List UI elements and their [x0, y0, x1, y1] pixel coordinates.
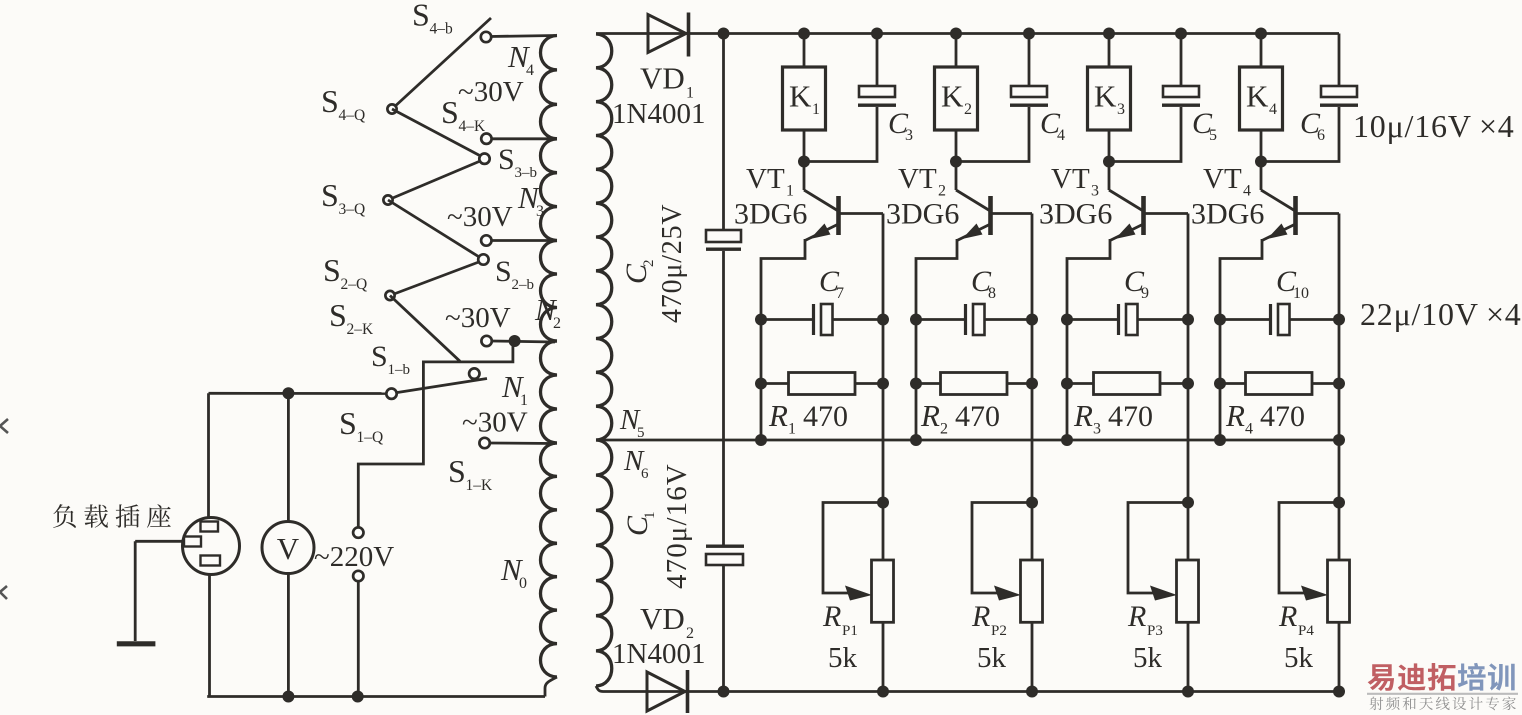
label C8: [971, 265, 996, 302]
label S4-K: [441, 94, 486, 135]
wire RP4 bottom: [1338, 622, 1341, 691]
label 5k (RP3): [1133, 642, 1163, 674]
junction top rail C5: [1175, 28, 1187, 40]
svg-text:P3: P3: [1147, 623, 1163, 639]
svg-text:VD: VD: [640, 601, 685, 636]
label S1-K: [448, 453, 493, 494]
pivot contact S4-Q: [387, 104, 396, 113]
svg-text:2: 2: [964, 101, 972, 118]
capacitor C2 470u/25V: [706, 230, 741, 251]
transformer secondary winding N6: [596, 440, 612, 686]
contact S3-b: [479, 154, 489, 164]
svg-text:0: 0: [519, 575, 527, 592]
svg-text:S: S: [329, 297, 347, 333]
svg-text:10: 10: [1293, 285, 1309, 302]
wire K2 top: [955, 34, 958, 68]
label ~30V (N2): [445, 302, 511, 334]
wire C4 top: [1028, 34, 1031, 87]
svg-text:VT: VT: [898, 163, 937, 195]
svg-text:VD: VD: [640, 61, 685, 96]
junction C10 left: [1214, 314, 1226, 326]
label 3DG6 (VT2): [886, 198, 959, 231]
svg-text:~30V: ~30V: [445, 302, 511, 334]
svg-text:S: S: [441, 94, 459, 130]
junction voltmeter top: [282, 387, 294, 399]
junction R3 right: [1182, 378, 1194, 390]
label N6: [623, 445, 649, 482]
svg-text:R: R: [971, 600, 990, 633]
label S4-Q: [321, 83, 365, 124]
svg-text:2–Q: 2–Q: [341, 276, 368, 293]
watermark underline: [1367, 693, 1518, 695]
svg-text:3–Q: 3–Q: [339, 201, 366, 218]
wire tap N2/N1 with junction: [492, 341, 555, 342]
wire socket to ground: [135, 541, 183, 641]
label 3DG6 (VT4): [1191, 198, 1264, 231]
label N1: [501, 369, 528, 409]
junction R2 right: [1026, 378, 1038, 390]
wire C2 bottom through mid rail to C1: [722, 251, 725, 545]
svg-text:470μ/25V: 470μ/25V: [657, 204, 688, 323]
label 10u/16V x4: [1353, 108, 1515, 144]
label R2 470: [920, 398, 1000, 438]
label N4: [507, 39, 534, 79]
svg-text:1–b: 1–b: [388, 362, 411, 378]
svg-text:P1: P1: [842, 623, 858, 639]
label RP4: [1278, 600, 1314, 639]
svg-text:2: 2: [641, 260, 657, 268]
wire primary bottom end to left bottom rail: [545, 677, 557, 697]
potentiometer RP3 5k: [1128, 503, 1199, 623]
junction mid rail right end: [1333, 434, 1345, 446]
svg-text:470: 470: [803, 400, 848, 433]
svg-text:S: S: [498, 143, 515, 176]
switch arm S3-Q lower: [388, 200, 479, 257]
label 1N4001 (VD2): [612, 638, 705, 670]
label 负载插座: [53, 504, 171, 528]
junction emitter rail mid rail: [1061, 434, 1073, 446]
svg-text:2–K: 2–K: [347, 321, 375, 338]
mains terminal lower: [353, 571, 363, 581]
junction top rail C3: [871, 28, 883, 40]
wire C1 bottom: [722, 565, 725, 692]
switch arm S1-Q: [397, 379, 488, 393]
relay K2: [935, 67, 978, 130]
pivot contact S1-Q: [386, 389, 396, 399]
label S4-b: [412, 0, 453, 38]
label R3 470: [1073, 398, 1153, 438]
wire C6 bottom to collector node: [1261, 107, 1339, 162]
svg-text:1: 1: [812, 101, 820, 118]
svg-text:R: R: [1225, 398, 1245, 433]
wire secondary bottom end to right bottom rail: [596, 686, 603, 692]
svg-text:5k: 5k: [828, 642, 858, 674]
svg-text:22μ/10V ×4: 22μ/10V ×4: [1360, 296, 1522, 332]
wire RP1 bottom: [882, 622, 885, 691]
contact S1-b: [469, 368, 479, 378]
svg-text:4: 4: [526, 62, 534, 79]
svg-text:470: 470: [1260, 400, 1305, 433]
junction R4 left: [1214, 378, 1226, 390]
transformer secondary winding N5: [596, 34, 612, 440]
svg-text:S: S: [323, 252, 341, 288]
svg-text:~30V: ~30V: [447, 201, 513, 233]
scan artifact left edge 2: [0, 586, 7, 599]
junction wiper RP2: [1026, 497, 1038, 509]
label N0: [500, 552, 527, 592]
watermark 易迪拓: [1368, 663, 1456, 691]
label C2: [620, 260, 657, 285]
watermark 培训: [1458, 663, 1515, 691]
svg-text:2–b: 2–b: [512, 277, 535, 293]
wire K3 bottom to collector: [1108, 130, 1111, 162]
label N2: [534, 292, 561, 332]
label 5k (RP4): [1284, 642, 1314, 674]
contact S4-b: [481, 32, 491, 42]
label VT3: [1051, 163, 1099, 200]
diode VD1: [648, 13, 689, 57]
svg-text:3: 3: [536, 203, 544, 220]
wire C3 top: [876, 34, 879, 87]
resistor R2 470: [916, 373, 1032, 395]
label VT4: [1203, 163, 1251, 200]
junction C7 left: [755, 314, 767, 326]
wire C4 bottom to collector node: [956, 107, 1029, 162]
junction collector VT3: [1103, 156, 1115, 168]
junction C8 right: [1026, 314, 1038, 326]
svg-text:1–K: 1–K: [466, 477, 494, 494]
contact S1-K: [479, 438, 489, 448]
diode VD2: [647, 670, 688, 713]
svg-text:1N4001: 1N4001: [612, 638, 705, 670]
wire base rail VT2: [1031, 214, 1034, 561]
wire socket left vertical: [207, 393, 210, 518]
junction top rail C2: [718, 28, 730, 40]
svg-text:S: S: [321, 83, 339, 119]
transformer primary winding N2: [541, 241, 558, 342]
voltmeter V: [262, 522, 314, 574]
svg-text:3DG6: 3DG6: [1191, 198, 1264, 231]
wire left bottom rail: [207, 695, 545, 698]
capacitor C5 10u/16V: [1162, 86, 1200, 107]
svg-text:R: R: [1278, 600, 1297, 633]
svg-text:4–b: 4–b: [430, 21, 454, 38]
svg-text:R: R: [768, 398, 788, 433]
label C5: [1192, 107, 1217, 144]
wire C5 top: [1180, 34, 1183, 87]
junction emitter rail mid rail: [1214, 434, 1226, 446]
wire base rail VT1: [882, 214, 885, 561]
junction voltmeter bottom: [282, 691, 294, 703]
label K2: [941, 79, 972, 119]
relay K3: [1088, 67, 1131, 130]
junction R1 left: [755, 378, 767, 390]
label ~30V (N3): [447, 201, 513, 233]
label R4 470: [1225, 398, 1305, 438]
capacitor C9 22u/10V: [1067, 304, 1188, 335]
svg-text:R: R: [920, 398, 940, 433]
switch arm S3-Q upper: [388, 161, 480, 200]
pivot contact S3-Q: [383, 195, 392, 204]
junction C10 right: [1333, 314, 1345, 326]
svg-text:VT: VT: [1203, 163, 1242, 195]
wire mid rail N5/N6: [598, 439, 1339, 442]
label ~30V (N1): [462, 407, 528, 439]
wire K1 bottom to collector: [803, 130, 806, 162]
junction top rail K1: [798, 28, 810, 40]
wire tap N2/N1 to mains terminal: [358, 341, 514, 528]
label VD2: [640, 601, 694, 642]
junction bottom rail RP3: [1182, 686, 1194, 698]
svg-text:4: 4: [1269, 101, 1277, 118]
svg-text:S: S: [339, 405, 357, 441]
label RP2: [971, 600, 1007, 639]
pivot contact S2-Q: [385, 291, 394, 300]
label N3: [517, 180, 544, 220]
resistor R3 470: [1067, 373, 1188, 395]
ground: [117, 641, 156, 646]
label S2-K: [329, 297, 374, 338]
label C9: [1124, 265, 1149, 302]
contact S4-K: [481, 134, 491, 144]
resistor R4 470: [1220, 373, 1339, 395]
label S3-b: [498, 143, 537, 181]
svg-text:1: 1: [788, 421, 796, 438]
junction emitter rail mid rail: [755, 434, 767, 446]
junction tap N2/N1: [509, 335, 521, 347]
junction collector VT2: [950, 156, 962, 168]
wire socket top rail: [209, 392, 387, 395]
svg-text:5k: 5k: [977, 642, 1007, 674]
potentiometer RP4 5k: [1279, 503, 1350, 623]
junction bottom rail C1: [718, 686, 730, 698]
wire tap N4 top: [490, 36, 555, 37]
label S1-b: [371, 340, 410, 378]
svg-text:K: K: [789, 79, 812, 114]
svg-text:4–Q: 4–Q: [339, 107, 366, 124]
svg-text:~30V: ~30V: [458, 76, 524, 108]
svg-text:5k: 5k: [1133, 642, 1163, 674]
svg-text:6: 6: [1317, 127, 1325, 144]
svg-text:3: 3: [1117, 101, 1125, 118]
wire K4 bottom to collector: [1260, 130, 1263, 162]
label 3DG6 (VT1): [734, 198, 807, 231]
svg-text:10μ/16V ×4: 10μ/16V ×4: [1353, 108, 1515, 144]
svg-text:S: S: [448, 453, 466, 489]
capacitor C1 470u/16V: [706, 545, 744, 566]
capacitor C8 22u/10V: [916, 304, 1032, 335]
svg-text:V: V: [277, 531, 300, 566]
label C4: [1040, 107, 1065, 144]
switch arm S4-Q lower: [392, 109, 481, 156]
junction C7 right: [877, 314, 889, 326]
label S1-Q: [339, 405, 383, 446]
transformer primary winding N1: [541, 341, 558, 443]
wire C5 bottom to collector node: [1109, 107, 1181, 162]
capacitor C7 22u/10V: [761, 304, 883, 335]
wire RP3 bottom: [1187, 622, 1190, 691]
svg-text:1N4001: 1N4001: [612, 98, 705, 130]
junction collector VT4: [1255, 156, 1267, 168]
wire socket bottom vertical: [208, 575, 211, 697]
junction wiper RP3: [1182, 497, 1194, 509]
svg-text:K: K: [1094, 79, 1117, 114]
label K4: [1246, 79, 1277, 119]
contact S3-K: [481, 235, 491, 245]
svg-text:R: R: [822, 600, 841, 633]
svg-text:VT: VT: [746, 163, 785, 195]
transformer primary winding N4: [541, 36, 558, 139]
resistor R1 470: [761, 373, 883, 395]
svg-text:K: K: [1246, 79, 1269, 114]
label VD1: [640, 61, 694, 102]
label S3-Q: [321, 177, 365, 218]
svg-text:~220V: ~220V: [314, 541, 394, 573]
svg-text:3DG6: 3DG6: [734, 198, 807, 231]
label 470u/16V (C1): [661, 463, 693, 589]
junction top rail K2: [950, 28, 962, 40]
junction bottom rail RP1: [877, 686, 889, 698]
svg-text:3: 3: [1093, 421, 1101, 438]
label VT1: [746, 163, 794, 200]
junction emitter rail mid rail: [910, 434, 922, 446]
junction R4 right: [1333, 378, 1345, 390]
wire C3 bottom to collector node: [804, 107, 877, 162]
switch arm S4-Q upper: [392, 18, 491, 109]
transistor VT3 3DG6: [1067, 162, 1188, 441]
transistor VT1 3DG6: [761, 162, 883, 441]
wire K3 top: [1108, 34, 1111, 68]
label C3: [888, 107, 913, 144]
switch arm S2-Q lower: [390, 296, 460, 362]
label RP1: [822, 600, 858, 639]
junction bottom rail RP4: [1333, 686, 1345, 698]
svg-text:1: 1: [642, 512, 658, 520]
svg-text:K: K: [941, 79, 964, 114]
junction C9 right: [1182, 314, 1194, 326]
junction mains bottom: [352, 691, 364, 703]
label ~30V (N4): [458, 76, 524, 108]
wire voltmeter top: [287, 393, 290, 521]
load socket symbol: [183, 518, 240, 575]
wire top rail corner to C6: [1338, 34, 1341, 87]
capacitor C3 10u/16V: [858, 86, 896, 107]
label K3: [1094, 79, 1125, 119]
junction wiper RP4: [1333, 497, 1345, 509]
svg-text:P4: P4: [1298, 623, 1314, 639]
svg-text:3DG6: 3DG6: [886, 198, 959, 231]
junction R3 left: [1061, 378, 1073, 390]
transformer primary winding N0: [541, 443, 558, 677]
wire voltmeter bottom: [287, 574, 290, 697]
potentiometer RP2 5k: [972, 503, 1043, 623]
capacitor C4 10u/16V: [1010, 86, 1048, 107]
svg-text:6: 6: [641, 466, 649, 482]
transformer primary winding N3: [541, 139, 558, 241]
watermark 射频和天线设计专家: [1370, 697, 1516, 711]
junction top rail K4: [1255, 28, 1267, 40]
junction C8 left: [910, 314, 922, 326]
label 1N4001 (VD1): [612, 98, 705, 130]
svg-text:R: R: [1127, 600, 1146, 633]
svg-text:470: 470: [955, 400, 1000, 433]
svg-text:S: S: [371, 340, 388, 373]
wire tap N3/N2: [491, 239, 555, 242]
svg-text:4: 4: [1057, 127, 1065, 144]
wire mains lower terminal to bottom rail: [357, 581, 360, 696]
transistor VT2 3DG6: [916, 162, 1032, 441]
label K1: [789, 79, 820, 119]
label 5k (RP2): [977, 642, 1007, 674]
label 470u/25V (C2): [657, 204, 688, 323]
switch arm S2-Q upper: [390, 262, 479, 296]
wire right bottom rail: [603, 690, 1342, 693]
label 3DG6 (VT3): [1039, 198, 1112, 231]
svg-text:P2: P2: [991, 623, 1007, 639]
svg-text:~30V: ~30V: [462, 407, 528, 439]
label C10: [1276, 265, 1309, 302]
wire base rail VT3: [1187, 214, 1190, 561]
junction top rail C4: [1023, 28, 1035, 40]
relay K1: [783, 67, 826, 130]
svg-text:2: 2: [553, 315, 561, 332]
contact S2-K: [481, 336, 491, 346]
svg-text:9: 9: [1141, 285, 1149, 302]
junction C9 left: [1061, 314, 1073, 326]
transistor VT4 3DG6: [1220, 162, 1339, 441]
svg-text:1–Q: 1–Q: [357, 429, 384, 446]
junction top rail K3: [1103, 28, 1115, 40]
label 22u/10V x4: [1360, 296, 1522, 332]
svg-text:4–K: 4–K: [459, 118, 487, 135]
junction R1 right: [877, 378, 889, 390]
wire base rail VT4: [1338, 214, 1341, 561]
junction collector VT1: [798, 156, 810, 168]
svg-text:4: 4: [1245, 421, 1253, 438]
contact S2-b: [478, 254, 488, 264]
svg-text:5: 5: [1209, 127, 1217, 144]
label N5: [619, 404, 645, 441]
label C6: [1300, 107, 1325, 144]
label S2-Q: [323, 252, 367, 293]
junction wiper RP1: [877, 497, 889, 509]
wire K1 top: [803, 34, 806, 68]
label RP3: [1127, 600, 1163, 639]
svg-text:5k: 5k: [1284, 642, 1314, 674]
svg-text:S: S: [321, 177, 339, 213]
wire K4 top: [1260, 34, 1263, 68]
svg-text:3DG6: 3DG6: [1039, 198, 1112, 231]
label VT2: [898, 163, 946, 200]
wire tap N4/N3: [491, 137, 555, 140]
label ~220V: [314, 541, 394, 573]
capacitor C6 10u/16V: [1320, 86, 1358, 107]
junction R2 left: [910, 378, 922, 390]
junction bottom rail RP2: [1026, 686, 1038, 698]
label S2-b: [495, 255, 534, 293]
label 5k (RP1): [828, 642, 858, 674]
wire C2 top: [722, 34, 725, 231]
svg-text:470: 470: [1108, 400, 1153, 433]
wire top rail: [596, 32, 1339, 35]
mains terminal upper: [353, 527, 363, 537]
svg-text:3: 3: [905, 127, 913, 144]
svg-text:3–b: 3–b: [515, 165, 538, 181]
svg-text:7: 7: [836, 285, 844, 302]
svg-text:470μ/16V: 470μ/16V: [661, 463, 693, 589]
svg-text:2: 2: [940, 421, 948, 438]
label C1: [621, 512, 658, 537]
